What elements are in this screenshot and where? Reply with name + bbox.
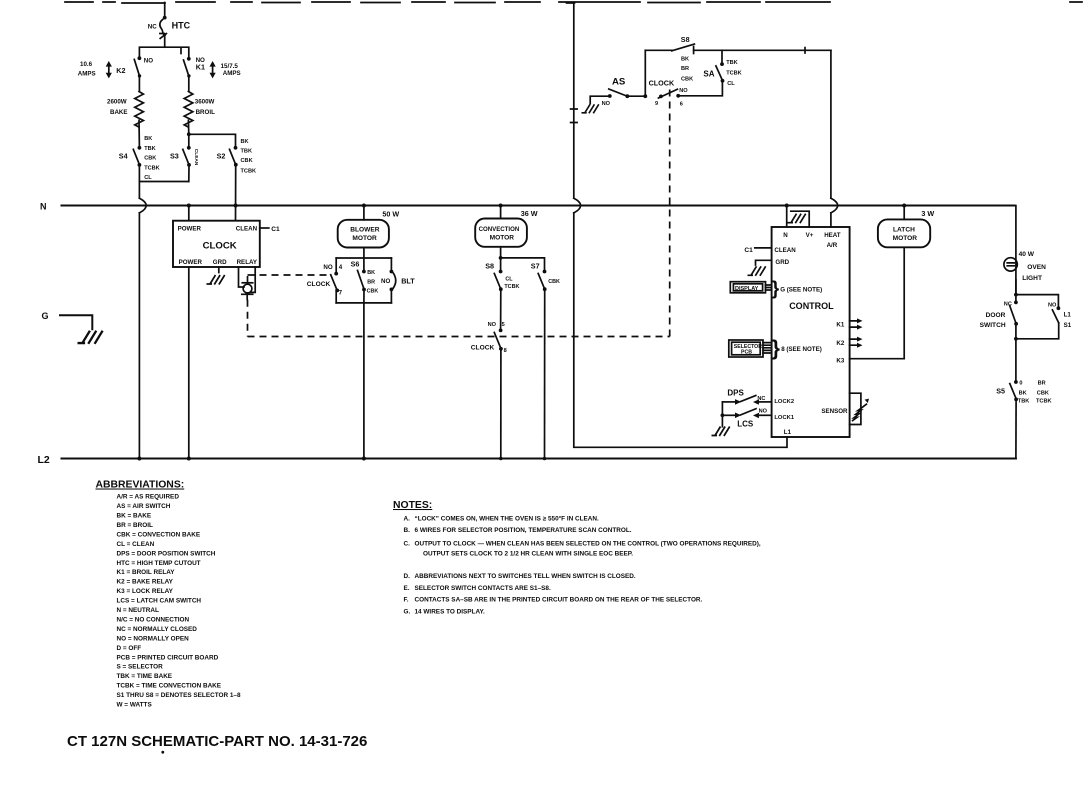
junction AS node [643, 94, 647, 98]
svg-text:MOTOR: MOTOR [352, 235, 377, 242]
svg-text:E.: E. [404, 585, 410, 592]
svg-text:}: } [772, 337, 780, 360]
svg-text:A/R: A/R [827, 242, 838, 249]
contact NO (S6 clock) [334, 272, 338, 276]
svg-text:L1: L1 [1064, 312, 1072, 319]
wire HTC to split bar [164, 37, 166, 48]
svg-text:BR: BR [367, 280, 375, 286]
svg-text:10.6: 10.6 [80, 61, 93, 68]
wire clock POWER to L2 [188, 267, 190, 459]
svg-text:BK: BK [144, 136, 152, 142]
svg-text:S1 THRU S8 = DENOTES SELECTOR: S1 THRU S8 = DENOTES SELECTOR 1–8 [117, 692, 241, 699]
svg-text:N = NEUTRAL: N = NEUTRAL [117, 607, 160, 614]
svg-text:CLOCK: CLOCK [307, 281, 331, 288]
svg-text:V+: V+ [806, 232, 814, 239]
svg-text:CONTROL: CONTROL [789, 301, 834, 311]
svg-text:LOCK1: LOCK1 [774, 415, 794, 421]
svg-text:S7: S7 [531, 262, 540, 271]
S6 block bottom bus [336, 302, 391, 304]
svg-text:DISPLAY: DISPLAY [735, 286, 759, 292]
svg-text:NOTES:: NOTES: [393, 500, 432, 511]
svg-text:SELECTOR SWITCH CONTACTS ARE: SELECTOR SWITCH CONTACTS ARE S1–S8. [415, 585, 551, 592]
wire S6 block to L2 [363, 303, 365, 459]
wire HEAT drop to control [830, 213, 832, 227]
svg-text:W = WATTS: W = WATTS [117, 702, 153, 709]
svg-text:K1 = BROIL RELAY: K1 = BROIL RELAY [117, 569, 176, 576]
svg-text:CLEAN: CLEAN [236, 226, 258, 233]
contact K1 bottom [187, 74, 190, 77]
svg-text:BK = BAKE: BK = BAKE [117, 513, 152, 520]
node broil junction [187, 132, 191, 136]
module DISPLAY [730, 282, 765, 293]
rail G stub [60, 315, 92, 329]
svg-text:L1: L1 [784, 429, 792, 436]
svg-text:TCBK: TCBK [241, 168, 257, 174]
svg-text:9: 9 [655, 101, 658, 107]
svg-text:NO: NO [602, 101, 611, 107]
svg-text:S1: S1 [1064, 322, 1072, 329]
connector relay plug [242, 283, 253, 300]
tick marks on L1 drop [571, 109, 578, 123]
svg-text:D = OFF: D = OFF [117, 645, 142, 652]
wire N to blower motor [363, 206, 365, 220]
svg-text:3 W: 3 W [921, 209, 934, 218]
wire door switch top bus [1016, 295, 1059, 307]
svg-text:TBK: TBK [1018, 398, 1030, 404]
dashed link clock column up [669, 89, 671, 337]
svg-text:LIGHT: LIGHT [1022, 275, 1042, 282]
svg-text:GRD: GRD [775, 259, 789, 266]
junction POWER/L2 [187, 457, 191, 461]
wire bake to S4 [138, 120, 140, 147]
S6 block left lower leg [335, 290, 337, 303]
contact BLT top [390, 270, 394, 274]
contact K2 bottom [138, 74, 141, 77]
svg-text:AS = AIR SWITCH: AS = AIR SWITCH [117, 503, 171, 510]
motor M1 blower [338, 220, 389, 248]
wire N to latch motor [903, 206, 905, 220]
wire L1 drop [573, 3, 575, 199]
contact BLT bottom [390, 288, 394, 292]
svg-text:POWER: POWER [178, 226, 202, 233]
svg-text:RELAY: RELAY [237, 259, 258, 266]
contact pin7 [335, 289, 339, 293]
svg-text:NO = NORMALLY OPEN: NO = NORMALLY OPEN [117, 635, 190, 642]
svg-text:3600W: 3600W [195, 98, 215, 105]
svg-text:SWITCH: SWITCH [980, 322, 1006, 329]
selector switch S8 [485, 262, 519, 290]
wire S7 to L2 [544, 289, 546, 458]
wire GRD pin stub [218, 267, 220, 273]
svg-text:D.: D. [404, 573, 411, 580]
svg-text:MOTOR: MOTOR [893, 235, 918, 242]
junction S7/L2 [543, 457, 547, 461]
svg-text:LCS: LCS [737, 420, 754, 429]
selector switch S2 [217, 139, 256, 174]
svg-text:POWER: POWER [179, 259, 203, 266]
relay contact K1 [184, 57, 241, 79]
rail N [62, 205, 1010, 207]
wire bundle display to control [766, 285, 772, 290]
junction latch/N [902, 204, 906, 208]
svg-text:NO: NO [323, 264, 332, 271]
svg-text:OVEN: OVEN [1027, 264, 1046, 271]
svg-text:BK: BK [241, 139, 249, 145]
ground (clock GRD) [207, 275, 225, 285]
wire RELAY pin right [250, 267, 255, 292]
svg-text:TBK: TBK [241, 148, 253, 154]
svg-text:G (SEE NOTE): G (SEE NOTE) [780, 287, 822, 294]
svg-text:CLEAN: CLEAN [193, 149, 199, 166]
svg-text:DPS = DOOR POSITION SWITCH: DPS = DOOR POSITION SWITCH [117, 550, 216, 557]
svg-text:CBK = CONVECTION BAKE: CBK = CONVECTION BAKE [117, 531, 201, 538]
crossover hop at N [139, 198, 146, 213]
svg-text:N: N [783, 232, 788, 239]
switch AS (air switch) [602, 77, 630, 108]
sensor loop [850, 393, 861, 424]
svg-text:8: 8 [504, 348, 507, 354]
wire S4 down, hop over N, to L2 [138, 165, 140, 459]
svg-text:7: 7 [339, 290, 343, 297]
junction N pin [785, 204, 789, 208]
svg-text:40 W: 40 W [1019, 251, 1035, 258]
svg-text:S6: S6 [351, 259, 360, 268]
svg-text:CL: CL [727, 81, 735, 87]
wire lamp to door switch (overlay) [1015, 280, 1017, 295]
dashed link relay down [247, 300, 249, 337]
svg-text:AS: AS [612, 77, 626, 88]
wire oven light drop from N [1015, 206, 1017, 295]
switch DPS upper (NC) [722, 388, 771, 404]
svg-text:F.: F. [404, 597, 409, 604]
svg-text:BR: BR [1038, 381, 1046, 387]
svg-text:BR: BR [681, 66, 689, 72]
svg-text:BAKE: BAKE [110, 109, 128, 116]
wire S3 to link [188, 165, 190, 182]
svg-text:CL = CLEAN: CL = CLEAN [117, 541, 155, 548]
svg-text:N/C = NO CONNECTION: N/C = NO CONNECTION [117, 617, 190, 624]
motor M3 latch [878, 219, 930, 247]
svg-text:CBK: CBK [367, 288, 379, 294]
S6 block right leg lower [390, 289, 392, 303]
svg-text:CL: CL [144, 175, 152, 181]
wire motor to S6 block [363, 248, 365, 259]
svg-text:TBK: TBK [726, 60, 738, 66]
svg-text:TCBK: TCBK [1036, 398, 1052, 404]
contact S6 top [362, 270, 366, 274]
svg-text:K1: K1 [196, 62, 205, 71]
svg-text:OUTPUT SETS CLOCK TO 2 1/2 HR: OUTPUT SETS CLOCK TO 2 1/2 HR CLEAN WITH… [423, 551, 633, 558]
wire clock 8 to L2 [500, 349, 502, 459]
ground (G rail) [78, 331, 103, 344]
svg-text:B.: B. [404, 527, 411, 534]
svg-text:BLOWER: BLOWER [350, 227, 380, 234]
wire RELAY pin left [239, 267, 245, 287]
svg-text:MOTOR: MOTOR [490, 235, 515, 242]
ground (air switch) [582, 104, 599, 113]
node S3-S4 link [139, 181, 188, 183]
svg-text:36 W: 36 W [521, 209, 538, 218]
svg-text:14 WIRES TO DISPLAY.: 14 WIRES TO DISPLAY. [415, 609, 486, 616]
svg-text:CONVECTION: CONVECTION [479, 226, 520, 233]
svg-text:NC = NORMALLY CLOSED: NC = NORMALLY CLOSED [117, 626, 198, 633]
svg-text:CLOCK: CLOCK [203, 240, 237, 251]
ground (control GRD) [748, 266, 766, 276]
selector switch S8 (PCB row) [645, 35, 694, 53]
svg-text:CBK: CBK [1037, 390, 1049, 396]
svg-text:GRD: GRD [213, 259, 227, 266]
resistor 2600W BAKE [107, 92, 143, 128]
junction blower/L2 [362, 457, 366, 461]
svg-text:BROIL: BROIL [196, 109, 215, 116]
dashed link bottom run to clock contact column [248, 336, 670, 338]
S6 block right leg upper [390, 258, 392, 271]
svg-text:NO: NO [488, 322, 497, 328]
wire N to clock POWER pin [188, 206, 190, 221]
svg-text:S8: S8 [485, 262, 494, 271]
svg-text:TCBK: TCBK [726, 71, 742, 77]
thermostat BLT arc [392, 272, 396, 290]
svg-text:CBK: CBK [241, 158, 253, 164]
wire center to S6 [363, 258, 365, 272]
svg-text:LCS = LATCH CAM SWITCH: LCS = LATCH CAM SWITCH [117, 598, 202, 605]
svg-text:6: 6 [680, 101, 683, 107]
svg-text:G: G [42, 311, 49, 321]
tick on S8 row [804, 48, 806, 53]
wire S2 to N and clock CLEAN pin [235, 165, 237, 221]
wire C1 to CLEAN pin [755, 247, 772, 249]
module CONTROL [772, 227, 850, 437]
notes list [404, 515, 761, 616]
svg-text:DOOR: DOOR [986, 312, 1006, 319]
svg-text:BR = BROIL: BR = BROIL [117, 522, 153, 529]
junction S2/N [234, 204, 238, 208]
wire AS to junction [627, 95, 645, 97]
wire clock 6 to SA [678, 81, 722, 96]
svg-text:NC: NC [757, 396, 765, 402]
rail L2 [62, 458, 1016, 460]
svg-text:TBK: TBK [144, 146, 156, 152]
svg-text:PCB: PCB [741, 350, 752, 356]
svg-text:K1: K1 [836, 322, 844, 329]
motor M2 convection [475, 219, 527, 247]
thermistor sensor [853, 399, 869, 421]
svg-text:TCBK: TCBK [504, 284, 519, 290]
wire N to convection motor [500, 206, 502, 219]
svg-text:G.: G. [404, 609, 411, 616]
svg-text:CONTACTS SA–SB ARE IN THE PRIN: CONTACTS SA–SB ARE IN THE PRINTED CIRCUI… [415, 597, 703, 604]
clock module U-CLOCK [173, 221, 260, 267]
wire V+ pin to ground [791, 211, 809, 227]
switch door NC [980, 295, 1018, 330]
svg-text:L2: L2 [38, 454, 50, 466]
svg-text:AMPS: AMPS [223, 70, 241, 77]
svg-text:“LOCK” COMES ON, WHEN THE OVEN: “LOCK” COMES ON, WHEN THE OVEN IS ≥ 550°… [415, 515, 600, 523]
relay contact K2 [78, 56, 153, 78]
resistor 3600W BROIL [184, 92, 215, 128]
relay pins K2 arrows [850, 337, 863, 348]
selector switch S4 [119, 136, 160, 181]
ground (LCS) [712, 427, 730, 437]
svg-text:CLEAN: CLEAN [774, 247, 796, 254]
labels S6 block [307, 259, 415, 296]
thermostat HTC [148, 16, 191, 39]
wire ground to AS contact [590, 96, 609, 103]
junction blower/N [362, 204, 366, 208]
crossover hop HEAT drop over N [831, 198, 838, 213]
svg-text:CBK: CBK [548, 279, 560, 285]
svg-text:8 (SEE NOTE): 8 (SEE NOTE) [781, 346, 822, 353]
selector switch S5 [996, 380, 1051, 404]
wire K3 to latch motor [850, 247, 905, 358]
wire HEAT drop [830, 50, 832, 198]
switch door NO [1048, 302, 1072, 329]
junction DPS common [721, 413, 725, 417]
svg-text:CBK: CBK [681, 76, 693, 82]
svg-text:NO: NO [381, 278, 390, 285]
svg-text:OUTPUT TO CLOCK — WHEN CLEAN H: OUTPUT TO CLOCK — WHEN CLEAN HAS BEEN SE… [415, 541, 761, 548]
svg-text:K2: K2 [116, 66, 125, 75]
svg-text:S8: S8 [681, 35, 690, 44]
svg-text:6 WIRES FOR SELECTOR POSITION,: 6 WIRES FOR SELECTOR POSITION, TEMPERATU… [415, 527, 632, 534]
wire L1 drop to control L1 pin [574, 213, 787, 447]
junction clock8/L2 [499, 457, 503, 461]
wire L1 to HTC [164, 3, 166, 17]
wire junction up to S8 row [644, 50, 646, 96]
svg-text:N: N [40, 201, 47, 211]
wire broil to S3/S2 node [187, 120, 189, 134]
rotated labels S8 row [681, 57, 693, 83]
wire S5 to L2 corner [1015, 399, 1017, 458]
wire K1 to broil element [188, 76, 190, 92]
svg-text:CT 127N SCHEMATIC-PART NO. 14-: CT 127N SCHEMATIC-PART NO. 14-31-726 [67, 733, 367, 750]
svg-text:CL: CL [505, 277, 513, 283]
svg-text:0: 0 [1019, 381, 1022, 387]
svg-text:NC: NC [148, 23, 157, 30]
svg-text:S = SELECTOR: S = SELECTOR [117, 664, 164, 671]
contact S6 bottom [362, 288, 366, 292]
svg-text:K2 = BAKE RELAY: K2 = BAKE RELAY [117, 579, 174, 586]
junction convection/N [499, 204, 503, 208]
ground (V+) [788, 214, 806, 224]
wire bundle selector to control [763, 343, 772, 353]
S6 block left pin 4 leg [335, 258, 337, 273]
wire N pin to N rail [786, 206, 788, 228]
svg-text:BK: BK [1019, 390, 1027, 396]
switch S6 arm [358, 270, 365, 289]
wire GRD pin to ground [756, 260, 772, 265]
svg-text:TCBK = TIME CONVECTION BAKE: TCBK = TIME CONVECTION BAKE [117, 683, 222, 690]
svg-text:K2: K2 [836, 340, 844, 347]
node S8/S7 split [499, 256, 503, 260]
switch clock 5-8 [471, 322, 507, 354]
junction POWER/N [187, 204, 191, 208]
svg-text:S2: S2 [217, 152, 226, 161]
wire motor to split node [500, 247, 502, 258]
svg-text:A.: A. [404, 516, 411, 523]
svg-text:LATCH: LATCH [893, 226, 915, 233]
svg-text:NO: NO [144, 58, 153, 65]
wire S6 bottom to bus [363, 290, 365, 303]
rail N end dash [1011, 205, 1015, 207]
svg-text:ABBREVIATIONS NEXT TO SWITCHES: ABBREVIATIONS NEXT TO SWITCHES TELL WHEN… [415, 573, 636, 580]
svg-text:TCBK: TCBK [144, 166, 160, 172]
wire node to S2 [189, 134, 236, 148]
svg-text:BK: BK [681, 57, 689, 63]
svg-text:NO: NO [759, 408, 768, 414]
abbreviation list [117, 494, 241, 709]
svg-text:DPS: DPS [727, 388, 744, 397]
wire split to S7 [501, 258, 545, 272]
dashed link corner stub [247, 276, 249, 282]
svg-text:TBK = TIME BAKE: TBK = TIME BAKE [117, 673, 173, 680]
svg-text:BK: BK [367, 270, 375, 276]
svg-text:BLT: BLT [401, 277, 415, 286]
wire split to S8 [500, 258, 502, 272]
svg-text:CLOCK: CLOCK [649, 78, 675, 87]
svg-text:S3: S3 [170, 152, 179, 161]
node L1 hook at vertical drop [567, 2, 575, 4]
svg-text:CLOCK: CLOCK [471, 345, 495, 352]
wire S8 row to HEAT drop [694, 49, 831, 51]
stray dot under title [161, 751, 164, 754]
switch SA [703, 50, 741, 87]
svg-text:2600W: 2600W [107, 98, 127, 105]
wire CLEAN pin to C1 [260, 227, 269, 229]
wire S8 to clock contact 5 [500, 289, 502, 330]
svg-text:SA: SA [703, 69, 714, 78]
svg-text:4: 4 [339, 264, 343, 271]
contact S2 bottom [234, 163, 238, 167]
svg-text:HTC: HTC [172, 21, 191, 31]
lamp oven light [1004, 251, 1046, 282]
junction door bottom [1014, 337, 1018, 341]
svg-text:C.: C. [404, 541, 411, 548]
wire K2 to bake element [138, 76, 140, 92]
pin tick on bar [180, 48, 182, 54]
svg-text:S5: S5 [996, 386, 1005, 395]
wire DPS common to ground [721, 402, 723, 427]
junction S4/L2 [137, 457, 141, 461]
S6 block top bus [336, 257, 391, 259]
selector switch S3 [170, 146, 199, 167]
svg-text:K3 = LOCK RELAY: K3 = LOCK RELAY [117, 588, 174, 595]
svg-text:LOCK2: LOCK2 [774, 399, 794, 405]
svg-text:HEAT: HEAT [824, 232, 841, 239]
junction door switch top [1014, 293, 1018, 297]
wire split bar [139, 47, 188, 58]
switch clock 9-6 [649, 78, 689, 107]
contact S8 bottom [499, 287, 503, 291]
contact S7 bottom [543, 287, 547, 291]
svg-text:5: 5 [502, 322, 505, 328]
svg-text:HTC = HIGH TEMP CUTOUT: HTC = HIGH TEMP CUTOUT [117, 560, 201, 567]
module SELECTOR PCB [729, 340, 763, 357]
switch arm clock-NO [331, 275, 337, 291]
dashed link relay to S6 clock contact [248, 274, 329, 276]
svg-text:50 W: 50 W [382, 210, 399, 219]
svg-text:S4: S4 [119, 152, 128, 161]
wire door NO to bottom bus [1016, 323, 1059, 339]
relay pins K1 arrows [850, 318, 863, 329]
svg-text:CBK: CBK [144, 156, 156, 162]
wire door switch to S5 [1015, 324, 1017, 382]
svg-text:K3: K3 [836, 358, 844, 365]
svg-text:NO: NO [1048, 302, 1057, 308]
switch DPS lower (NO) [722, 408, 771, 428]
svg-text:C1: C1 [744, 247, 753, 254]
svg-text:C1: C1 [271, 226, 280, 233]
